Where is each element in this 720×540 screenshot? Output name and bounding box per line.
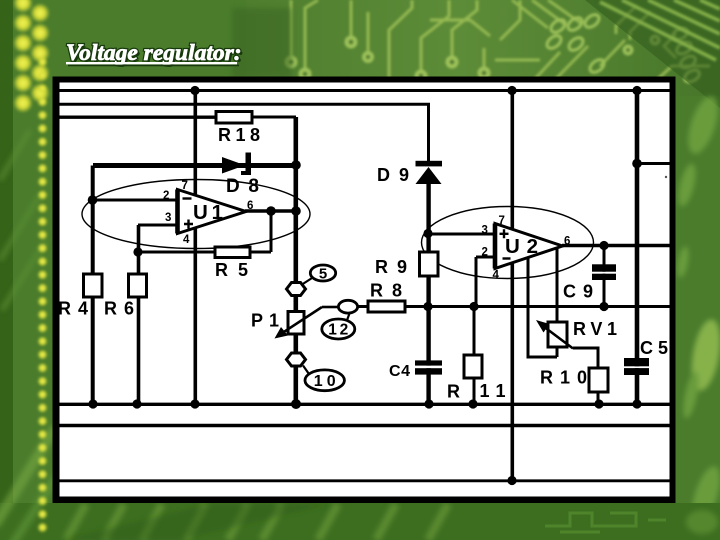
svg-text:3: 3 (165, 212, 171, 224)
svg-text:2: 2 (163, 190, 169, 202)
svg-text:6: 6 (564, 236, 570, 248)
svg-text:C4: C4 (389, 363, 410, 380)
svg-text:7: 7 (499, 215, 505, 227)
svg-text:2: 2 (482, 247, 488, 259)
svg-text:6: 6 (247, 200, 253, 212)
svg-text:RV1: RV1 (573, 319, 617, 339)
svg-text:R: R (447, 382, 460, 402)
svg-text:5: 5 (319, 266, 327, 283)
svg-text:4: 4 (493, 270, 500, 282)
svg-text:R10: R10 (540, 368, 587, 388)
svg-text:R18: R18 (218, 125, 260, 145)
svg-text:3: 3 (482, 225, 488, 237)
svg-text:4: 4 (183, 234, 190, 246)
svg-text:7: 7 (182, 180, 188, 192)
